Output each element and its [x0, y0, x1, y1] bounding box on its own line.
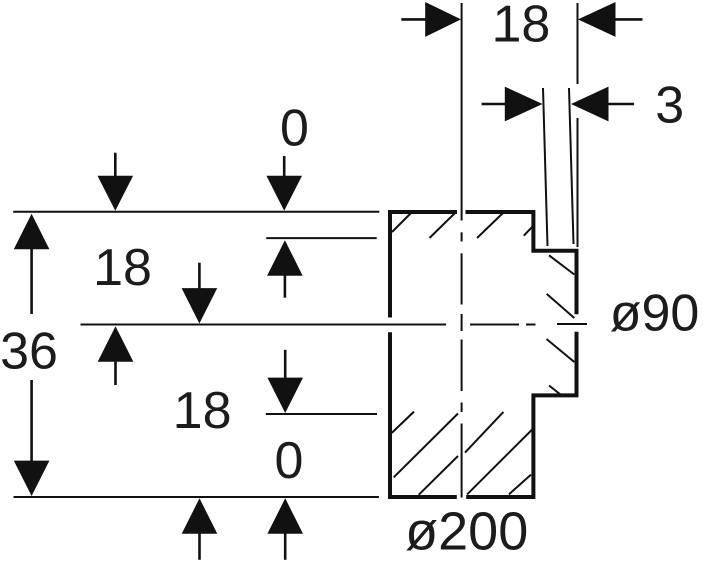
dimension arrow: top 18, left (points right at centerline): [401, 2, 461, 37]
vertical centerline short dash 3: [461, 403, 463, 413]
hatch line top band left of centerline: [430, 213, 456, 239]
hatch line spigot top (backslash): [549, 255, 574, 274]
extension line right (outer face) lower segment: [577, 118, 579, 247]
upper 18 reference line: [266, 237, 376, 239]
dimension arrow: 3, left (points right): [482, 87, 543, 122]
dimension arrow: 0-level down arrow far left: [98, 153, 134, 211]
hatch line top-left corner: [392, 213, 411, 232]
dimension arrow: lower 18 down arrow (points down at reference line): [267, 350, 303, 413]
vertical centerline long dash 1: [461, 253, 463, 304]
svg-text:0: 0: [280, 99, 309, 157]
vertical centerline long dash 3: [461, 424, 463, 498]
svg-text:36: 36: [0, 323, 58, 381]
dimension arrow: 3, right (points left): [571, 87, 634, 122]
part outline: top edge right of centerline + upper step + right face upper: [466, 212, 577, 314]
svg-text:0: 0: [275, 432, 304, 490]
dimension arrow: 0-level down arrow (under 0 label): [266, 156, 302, 211]
part outline: top-left section (left edge upper + top edge left of centerline): [390, 212, 457, 318]
top face dimension line (level 0): [13, 211, 379, 213]
hatch line spigot upper-middle (backslash): [547, 294, 575, 318]
horizontal centerline dash 1: [470, 324, 519, 326]
svg-text:ø200: ø200: [405, 501, 528, 561]
lower 18 reference line: [266, 413, 377, 415]
svg-text:18: 18: [492, 0, 550, 54]
horizontal centerline solid segment (also 18/18 dimension line): [81, 324, 447, 326]
part outline: bottom edge left of centerline + left edge lower: [390, 332, 457, 497]
label 18 (lower): [174, 382, 232, 440]
svg-text:3: 3: [655, 77, 684, 135]
hatch line spigot lower-middle (backslash): [547, 339, 575, 362]
slanted extension line inner (for 3): [543, 88, 548, 246]
bottom face dimension line (level 0): [14, 496, 379, 498]
dimension arrow: 36 top (points up): [14, 214, 50, 314]
vertical centerline solid upper segment: [461, 3, 463, 221]
horizontal centerline dash 2 (exits right face): [557, 323, 587, 325]
hatch line bottom-right corner: [509, 475, 531, 495]
dimension arrow: upper 18 down arrow (points down at centerline): [182, 263, 218, 324]
hatch line mid-left short: [392, 412, 414, 433]
vertical centerline long dash 2: [461, 340, 463, 392]
hatch line spigot bottom (backslash): [549, 386, 562, 396]
hatch line lower middle (right of centerline): [465, 412, 503, 453]
part outline: right face lower + lower step + bottom edge right of centerline: [466, 332, 576, 497]
dimension arrow: upper 18 up arrow (points up at reference line): [267, 240, 303, 298]
dimension arrow: top 18, right (points left at outer face line): [578, 2, 643, 37]
svg-text:18: 18: [94, 239, 152, 297]
svg-text:ø90: ø90: [610, 285, 700, 343]
horizontal centerline short dash: [526, 324, 536, 326]
label 18 (top): [492, 0, 550, 54]
vertical centerline short dash 2: [461, 314, 463, 331]
extension line right (outer face) upper segment: [577, 3, 579, 84]
hatch line lower-left long: [394, 414, 458, 478]
hatch line lower right long: [467, 429, 533, 495]
dimension arrow: 36 bottom (points down): [14, 380, 50, 496]
hatch line top band right of centerline: [477, 213, 504, 239]
hatch line near upper step: [524, 226, 533, 236]
label 18 (upper left): [94, 239, 152, 297]
hatch line lower middle (left of centerline): [419, 456, 458, 495]
dimension arrow: lower 18 up arrow (points up at centerline): [98, 326, 134, 385]
dimension arrow: bottom 0-level up arrow right: [267, 498, 303, 560]
dimension arrow: bottom 0-level up arrow left: [182, 498, 218, 560]
vertical centerline short dash 1: [461, 232, 463, 241]
svg-text:18: 18: [174, 382, 232, 440]
slanted extension line outer (for 3): [569, 88, 574, 244]
